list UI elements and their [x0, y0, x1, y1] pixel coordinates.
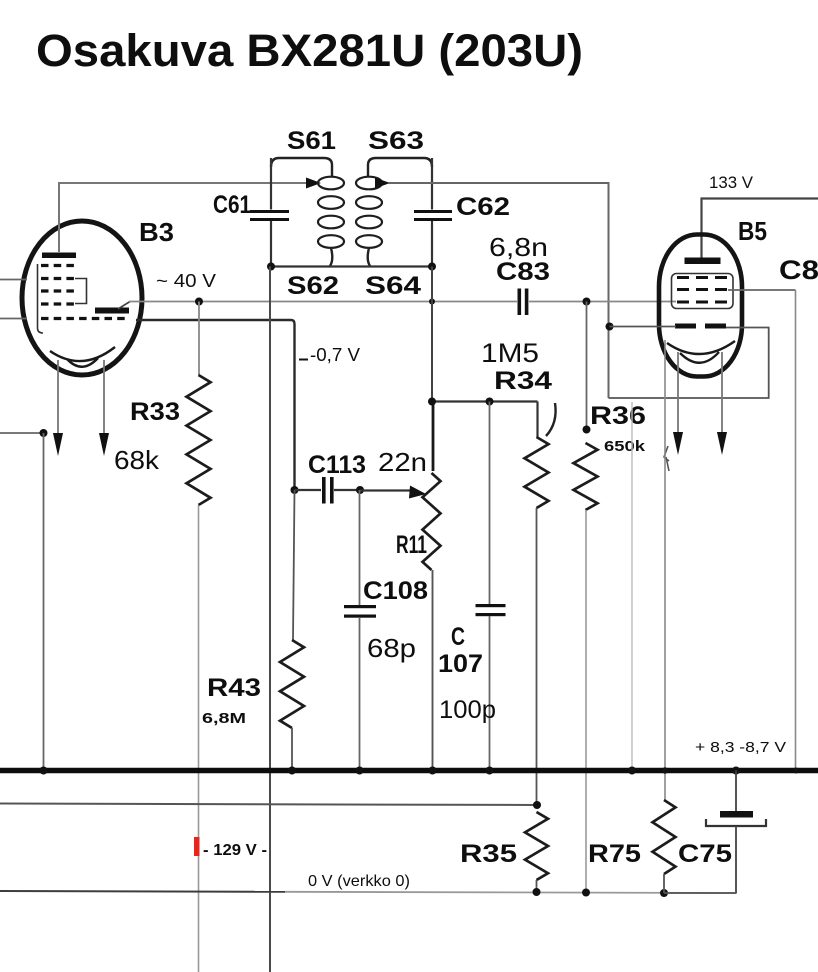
svg-text:+ 8,3 -8,7 V: + 8,3 -8,7 V: [695, 739, 786, 756]
svg-text:~ 40 V: ~ 40 V: [156, 271, 216, 291]
svg-text:B3: B3: [139, 217, 174, 247]
svg-text:C113: C113: [308, 451, 366, 479]
node 0V/R36: [582, 889, 590, 897]
svg-text:R35: R35: [460, 840, 517, 868]
R34 wiper arc: [546, 403, 556, 436]
svg-text:C62: C62: [456, 193, 510, 221]
wire transformer bottom to volume node: [431, 267, 433, 402]
wire detector rail: [129, 301, 517, 303]
capacitor C113: [295, 489, 322, 491]
wire faint mid: [631, 402, 633, 768]
tube B5 grid frame: [672, 274, 734, 309]
capacitor C83: [518, 289, 522, 316]
svg-text:C75: C75: [678, 840, 732, 868]
capacitor C61: [250, 210, 289, 213]
svg-text:68k: 68k: [114, 445, 160, 475]
node R33 top: [195, 298, 203, 306]
node bus/R11: [429, 767, 437, 775]
capacitor C61 branch wire: [270, 158, 272, 210]
capacitor C62 branch wire: [431, 158, 433, 210]
tube B3 envelope: [22, 221, 142, 375]
tube B3 grid rows: [41, 264, 75, 267]
S63 tap arrow: [375, 178, 390, 189]
node bus/C107: [486, 767, 494, 775]
svg-text:107: 107: [438, 650, 483, 678]
wire left branch: [0, 432, 44, 434]
tube B3 cathode bar: [95, 308, 129, 314]
resistor R34: [525, 437, 549, 508]
node bus/C108: [356, 767, 364, 775]
coil S61: [318, 177, 344, 190]
capacitor C107: [489, 402, 491, 605]
node transformer right bottom: [428, 263, 436, 271]
tube B3 heater arcs: [50, 347, 115, 361]
wire diode right U loop: [609, 328, 769, 399]
node C107 top: [486, 398, 494, 406]
svg-text:S62: S62: [287, 272, 339, 300]
transformer bottom wire S62-S64: [271, 265, 432, 267]
svg-text:C8: C8: [779, 255, 818, 285]
resistor R11: [423, 473, 441, 570]
resistor R43: [293, 490, 295, 640]
node transformer left bottom: [267, 263, 275, 271]
node bus/R75: [662, 767, 668, 773]
tube B5 grid rows: [677, 276, 728, 279]
IF transformer S63 secondary box: [368, 158, 432, 177]
svg-text:133 V: 133 V: [709, 173, 754, 192]
svg-text:Osakuva BX281U (203U): Osakuva BX281U (203U): [36, 25, 583, 76]
node diode left: [606, 323, 614, 331]
node 22n top: [428, 398, 436, 406]
node R36 top: [583, 426, 591, 434]
wire S63 tap to diode line: [388, 183, 609, 398]
wire to R34: [536, 402, 538, 438]
node C113 left: [291, 486, 299, 494]
svg-text:R36: R36: [590, 402, 646, 430]
wire B3 grid to C113/R43: [136, 320, 295, 490]
node C83 right: [583, 298, 591, 306]
node left branch: [40, 429, 48, 437]
svg-text:- 129 V -: - 129 V -: [203, 842, 267, 859]
node bus/R43: [288, 767, 296, 775]
wire 22n node down: [432, 402, 435, 472]
svg-text:R34: R34: [494, 367, 552, 395]
svg-text:100p: 100p: [439, 696, 496, 724]
svg-text:C61: C61: [213, 191, 251, 219]
svg-text:22n: 22n: [378, 447, 427, 477]
svg-text:6,8M: 6,8M: [202, 710, 246, 727]
node R35 top: [533, 801, 541, 809]
wire S62 to bottom edge: [269, 267, 271, 972]
resistor R75: [653, 800, 676, 874]
node bus/C8-line: [793, 768, 799, 774]
IF transformer S61 primary box: [271, 158, 332, 177]
svg-text:C83: C83: [496, 258, 550, 286]
coil S63: [356, 177, 382, 190]
tube B5 envelope: [659, 235, 742, 377]
B3 heater arrow right: [103, 360, 105, 437]
svg-text:S64: S64: [365, 272, 421, 300]
stray mark: [664, 446, 669, 471]
svg-text:S63: S63: [368, 127, 424, 155]
wire diode left: [610, 326, 677, 328]
bus +8V rail: [0, 768, 818, 774]
svg-text:C: C: [451, 623, 465, 651]
wire to R11 wiper: [360, 489, 412, 491]
S61 tap arrow: [306, 178, 321, 189]
resistor R33: [198, 302, 200, 376]
wire mid lower rail: [0, 804, 537, 806]
wire B3 anode to S61 tap: [59, 183, 307, 252]
svg-text:S61: S61: [287, 127, 336, 155]
capacitor C108: [359, 490, 361, 605]
wire B5 grid out: [728, 289, 796, 291]
svg-text:650k: 650k: [604, 438, 646, 455]
tube B3 grid frame: [38, 264, 44, 333]
tube B5 heater arcs: [667, 341, 735, 354]
svg-text:R43: R43: [207, 674, 261, 702]
tube B5 anode plate: [685, 258, 721, 265]
resistor R36: [586, 302, 588, 430]
tube B3 anode plate: [42, 253, 76, 259]
svg-text:1M5: 1M5: [481, 338, 539, 368]
svg-text:68p: 68p: [367, 633, 416, 663]
wire B5 pin to R75: [664, 340, 666, 800]
B3 left grid stub wires: [0, 279, 27, 281]
B5 heater arrow right: [721, 352, 723, 437]
svg-text:0 V (verkko 0): 0 V (verkko 0): [308, 873, 410, 890]
B3 heater arrow left: [57, 360, 59, 437]
capacitor C75 electrolytic: [735, 771, 737, 813]
node 0V/R75: [660, 889, 668, 897]
wire 0V rail: [0, 890, 285, 893]
tube B5 diode anode bars: [675, 324, 696, 329]
node 0V/R35: [533, 888, 541, 896]
label -0,7V: [299, 359, 308, 361]
svg-text:-0,7 V: -0,7 V: [310, 345, 360, 365]
svg-text:C108: C108: [363, 577, 428, 605]
node rail/volume-line: [429, 299, 435, 305]
red mark 129V: [194, 837, 200, 856]
wire 133V to B5 anode: [702, 199, 818, 259]
node bus/left: [40, 767, 48, 775]
wire volume node line: [432, 400, 538, 402]
node bus mid: [628, 767, 636, 775]
capacitor C62: [414, 210, 452, 213]
node C113 right: [356, 486, 364, 494]
svg-text:R75: R75: [588, 840, 641, 868]
svg-text:R33: R33: [130, 398, 180, 426]
B5 heater arrow left: [677, 352, 679, 437]
svg-text:R11: R11: [396, 531, 427, 559]
node bus/C75: [732, 767, 740, 775]
svg-text:B5: B5: [738, 216, 767, 246]
resistor R35: [525, 812, 548, 880]
